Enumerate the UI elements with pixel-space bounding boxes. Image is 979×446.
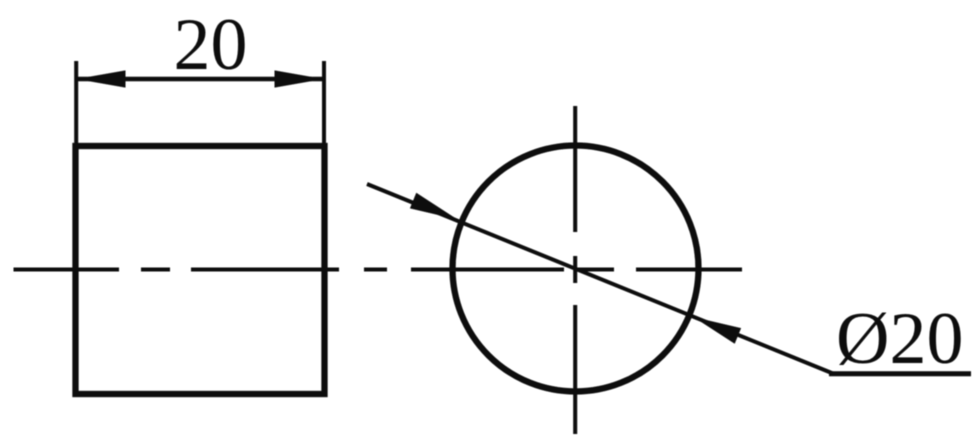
horizontal centerline dash 3 <box>191 268 339 272</box>
horizontal centerline dash 1 <box>14 268 120 272</box>
horizontal centerline dash 5 <box>411 268 564 272</box>
dimension line <box>77 77 323 81</box>
svg-text:Ø20: Ø20 <box>836 298 963 380</box>
right arrowhead <box>275 70 324 87</box>
front view square outline <box>76 146 325 394</box>
leader arrowhead lower-right <box>694 317 742 344</box>
side view circle <box>453 146 699 392</box>
left extension line <box>74 61 78 143</box>
diameter leader diagonal line <box>367 184 833 374</box>
horizontal centerline dash 2 <box>141 268 170 272</box>
leader landing underline <box>829 371 971 376</box>
vertical centerline dash 2 <box>573 256 577 283</box>
horizontal centerline dash 4 <box>364 268 387 272</box>
vertical centerline dash 3 <box>573 305 577 434</box>
left arrowhead <box>77 70 126 87</box>
horizontal centerline dash 6 <box>577 268 614 272</box>
svg-text:20: 20 <box>174 4 248 86</box>
leader arrowhead upper-left <box>410 193 458 220</box>
horizontal centerline dash 7 <box>636 268 742 272</box>
right extension line <box>322 61 326 143</box>
vertical centerline dash 1 <box>573 106 577 232</box>
